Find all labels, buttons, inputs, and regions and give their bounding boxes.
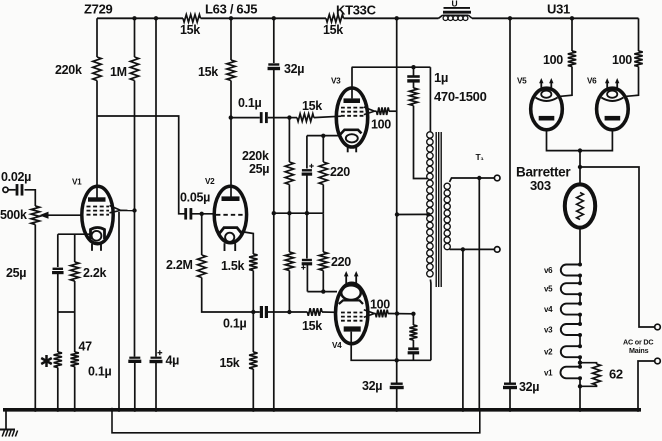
svg-text:V4: V4 <box>332 341 342 350</box>
wire coupling junction to 0.1u <box>231 117 260 119</box>
svg-text:1M: 1M <box>110 65 127 79</box>
wire return bus below rail <box>112 410 480 433</box>
label 100 <box>371 118 391 132</box>
svg-text:v3: v3 <box>544 326 553 335</box>
diode V5 (U31 rectifier half) <box>531 78 563 130</box>
wire heater chain <box>579 315 581 324</box>
wire asterisk resistor to rail <box>57 368 59 410</box>
node secondary bottom dot <box>461 247 465 251</box>
node ground rail junction <box>56 408 60 412</box>
capacitor 25u (V1 cathode bypass) <box>52 269 64 273</box>
label v4 <box>544 305 553 314</box>
wire 62 parallel top <box>580 363 597 364</box>
node center tap dot <box>426 212 430 216</box>
label AC or DC <box>623 338 653 347</box>
wire V4 screen funnel <box>364 310 376 317</box>
label Barretter <box>516 165 571 180</box>
barretter 303 (current regulator) <box>565 184 595 227</box>
label v1 <box>544 369 553 378</box>
node bus dot 25u <box>305 211 309 215</box>
node ground rail junction <box>73 408 77 412</box>
label 100 <box>370 298 390 312</box>
resistor 220k (V1 anode load) <box>93 57 101 81</box>
label 2.2k <box>83 266 106 280</box>
label U31 (rectifier type) <box>547 2 570 17</box>
svg-text:0.05µ: 0.05µ <box>180 191 210 205</box>
resistor 15k (V2 cathode to ground) <box>249 352 257 369</box>
svg-text:0.02µ: 0.02µ <box>1 170 31 184</box>
node mains terminal 1 <box>655 324 661 330</box>
wire V4 cathode wire <box>307 291 337 293</box>
resistor 2.2k (V1 cathode bias) <box>71 262 79 281</box>
resistor 100 (V6 anode limiter) <box>634 51 642 67</box>
wire HT rail (middle section) <box>201 17 327 19</box>
wire 220 top <box>322 136 324 162</box>
wire lower 220k to grid wire <box>288 271 290 313</box>
wire 0.1u cap to ground rail <box>134 362 136 410</box>
resistor 15k (HT dropper on rail, output stage) <box>326 15 344 23</box>
label V6 <box>587 77 597 86</box>
wire grid junction to 15k <box>289 117 297 119</box>
wire 4u cap to ground rail <box>155 362 157 410</box>
label 0.05u <box>180 191 210 205</box>
node V4 snubber junction <box>411 312 415 316</box>
wire V4 anode lead down <box>351 332 431 361</box>
wire junction down right <box>74 312 76 352</box>
wire V6 cathode down <box>580 130 612 151</box>
pentode V1 (Z729) <box>82 186 113 251</box>
node V3 cathode dot <box>321 134 325 138</box>
label 62 <box>609 367 623 382</box>
wire 1M screen feed from rail <box>134 18 136 57</box>
wire heater chain <box>579 294 581 303</box>
label KT33C (output valve type) <box>336 3 377 18</box>
label Z729 (V1 valve type) <box>84 2 113 17</box>
triode V2 (L63/6J5) <box>214 186 246 251</box>
label 100 <box>612 53 632 67</box>
capacitor 0.1u (paraphase coupling to V4) <box>261 306 266 318</box>
wire heater chain <box>579 276 581 284</box>
wire 2.2k to junction <box>74 281 76 312</box>
wire upper 220k from grid junction <box>288 118 290 162</box>
svg-text:0.1µ: 0.1µ <box>238 96 261 110</box>
svg-text:T₁: T₁ <box>476 152 485 162</box>
label 500k <box>0 208 27 222</box>
node HT rail junction <box>272 16 276 20</box>
node screen junction dot <box>132 208 136 212</box>
svg-text:V2: V2 <box>205 177 215 186</box>
wire 220k to V1 anode <box>96 81 98 198</box>
node ground bus tee <box>272 211 276 215</box>
wire 220k anode feed from rail <box>96 18 98 57</box>
wire V3 cathode wire <box>307 135 340 137</box>
label v6 <box>544 266 553 275</box>
node HT rail junction <box>229 16 233 20</box>
wire screen feed line from rail <box>396 18 398 382</box>
wire 100 to V5 lead <box>561 67 573 97</box>
wire HT to 32u cap <box>273 18 275 63</box>
wire V5 cathode down <box>547 130 581 151</box>
wire heater chain to ground rail <box>579 378 581 410</box>
svg-text:V1: V1 <box>72 178 82 187</box>
resistor 220k (V4 grid leak) <box>285 252 293 271</box>
svg-text:4µ: 4µ <box>166 354 180 368</box>
potentiometer 500k volume control <box>31 206 39 225</box>
node ground rail junction <box>251 408 255 412</box>
wire cathode junction jog <box>58 311 75 313</box>
resistor 100 (V4 screen stopper) <box>376 310 389 318</box>
wire primary top lead <box>429 67 431 131</box>
node ground rail junction <box>117 408 121 412</box>
node V3 grid junction <box>287 115 291 119</box>
capacitor 0.1u (V1 screen bypass) <box>128 358 141 362</box>
node secondary top dot <box>477 176 481 180</box>
svg-text:220k: 220k <box>55 63 82 77</box>
resistor 47 (V1 cathode) <box>71 352 79 367</box>
wire V4 heater stubs with arrows <box>344 271 359 284</box>
wire 0.1u to V4 grid junction <box>268 311 308 313</box>
wire lower 220 top <box>322 213 324 252</box>
svg-text:KT33C: KT33C <box>336 3 377 18</box>
wire V3 anode top bus <box>352 66 431 68</box>
wire 47 to rail <box>74 367 76 410</box>
pentode V3 (KT33C upper output) <box>336 88 367 152</box>
wire 32u down to ground bus <box>273 69 275 213</box>
svg-text:500k: 500k <box>0 208 27 222</box>
label 1u <box>434 70 448 85</box>
node screen feed CT junction <box>395 212 399 216</box>
wire 62 parallel bottom <box>580 385 597 386</box>
wire mains 2 to ground rail <box>638 361 655 410</box>
wire 1u to 470-1500 <box>413 81 415 88</box>
capacitor 25u (V4 cathode bypass) <box>302 260 313 264</box>
label 220k <box>242 149 269 163</box>
wire 100 to screen feed line <box>389 110 397 112</box>
node 62 bottom junction <box>578 384 582 388</box>
wire lower 25u to cathode wire <box>306 264 308 292</box>
label 4u <box>166 354 180 368</box>
svg-text:U: U <box>452 0 458 9</box>
wire secondary bottom to ground rail <box>462 249 464 409</box>
svg-text:v2: v2 <box>544 348 553 357</box>
wire V1 anode node bus <box>97 116 186 214</box>
wire 32u to ground rail <box>509 388 511 410</box>
svg-text:v4: v4 <box>544 305 553 314</box>
svg-text:U31: U31 <box>547 2 570 17</box>
wire 0.1u to grid junction <box>268 117 290 119</box>
svg-text:470-1500: 470-1500 <box>434 89 487 104</box>
label L63 / 6J5 (V2 valve type) <box>205 2 257 17</box>
resistor 2.2M (paraphase divider) <box>198 255 206 278</box>
label 1M <box>110 65 127 79</box>
svg-text:15k: 15k <box>323 23 343 37</box>
node rectifier output junction <box>578 148 582 152</box>
svg-text:0.1µ: 0.1µ <box>223 317 246 331</box>
wire 220k to ground bus <box>288 185 290 214</box>
wire lower 220k from ground bus <box>288 213 290 252</box>
wire input to coupling cap <box>8 189 15 191</box>
node barretter top junction <box>578 165 582 169</box>
node ground rail junction <box>33 408 37 412</box>
node V4 cathode dot <box>321 289 325 293</box>
node V2 anode coupling junction <box>229 115 233 119</box>
wire heater chain <box>579 357 581 367</box>
svg-text:15k: 15k <box>302 319 322 333</box>
svg-text:100: 100 <box>612 53 632 67</box>
label v2 <box>544 348 553 357</box>
capacitor 0.05u (V1 to V2 coupling) <box>186 208 191 220</box>
wire junction down left <box>57 312 59 352</box>
label 0.1u <box>223 317 246 331</box>
svg-text:25µ: 25µ <box>249 162 269 176</box>
wire screen junction down to 0.1u cap <box>134 211 136 357</box>
label 1.5k <box>221 259 244 273</box>
wire bus to 1u cap <box>413 67 415 76</box>
wire 100 to snubber junction <box>388 313 413 315</box>
node ground rail junction <box>636 408 640 412</box>
resistor 100 (V3 screen stopper) <box>377 107 390 115</box>
inductor heater v2 <box>561 344 582 359</box>
label 0.02u <box>1 170 31 184</box>
node ground rail junction <box>154 408 158 412</box>
node output terminal upper <box>494 175 500 181</box>
wire lower 25u top <box>306 213 308 258</box>
resistor 15k (HT dropper on rail, V1 stage) <box>183 15 201 23</box>
wire junction to snubber resistor <box>412 314 414 325</box>
capacitor 0.1u (V2 to V3 coupling) <box>261 112 266 123</box>
resistor selected-on-test (asterisk) <box>54 352 62 368</box>
capacitor 32u (reservoir) <box>503 384 517 388</box>
wire ground rail (chassis bus) <box>3 408 641 412</box>
capacitor 25u (V3 cathode bypass) <box>302 170 313 174</box>
node mains terminal 2 <box>655 358 661 364</box>
capacitor 4u (HT decoupling) <box>150 358 163 362</box>
label U <box>452 0 458 9</box>
wire heater chain <box>579 335 581 346</box>
wire 15k to V4 grid <box>322 311 337 313</box>
wire V1 screen lead to 1M junction <box>110 206 135 213</box>
svg-text:15k: 15k <box>302 99 322 113</box>
resistor 62 (heater shunt) <box>593 364 601 385</box>
svg-text:100: 100 <box>371 118 391 132</box>
capacitor 32u (HT smoothing) <box>268 65 281 69</box>
node rail dot rectifier <box>508 16 512 20</box>
node input terminal <box>3 187 8 192</box>
wire 15k to V3 grid <box>314 116 341 117</box>
node rail dot <box>395 16 399 20</box>
wire V5 100 from rail <box>571 18 573 51</box>
label 220 <box>330 165 350 179</box>
inductor heater v1 <box>560 365 582 381</box>
label 100 <box>543 53 563 67</box>
wire V2 grid junction to 2.2M <box>201 214 203 255</box>
ground (chassis earth) <box>0 412 18 437</box>
diode V6 (U31 rectifier half) <box>597 78 629 130</box>
wire secondary top down <box>478 178 480 410</box>
wire 15k to ground rail <box>252 369 254 410</box>
svg-text:v5: v5 <box>544 285 553 294</box>
svg-text:V5: V5 <box>517 77 527 86</box>
inductor T1 primary winding <box>427 132 433 277</box>
wire barretter to heater chain <box>579 228 581 265</box>
label 25u <box>6 266 26 280</box>
wire snubber resistor to cap <box>412 340 414 349</box>
svg-text:47: 47 <box>79 340 93 354</box>
label V1 <box>72 178 82 187</box>
wire 1M down to screen junction <box>134 81 136 211</box>
svg-text:1µ: 1µ <box>434 70 448 85</box>
wire secondary top lead <box>450 178 495 182</box>
wire primary bottom lead <box>429 280 432 361</box>
label V4 <box>332 341 342 350</box>
svg-text:15k: 15k <box>220 356 240 370</box>
svg-text:62: 62 <box>609 367 623 382</box>
wire ground bus drop to rail <box>273 213 275 410</box>
svg-text:15k: 15k <box>198 65 218 79</box>
label 0.1u <box>238 96 261 110</box>
node output terminal lower <box>494 247 500 253</box>
node ground rail junction <box>395 408 399 412</box>
label 25u <box>249 162 269 176</box>
node snubber tap dot <box>411 65 415 69</box>
svg-text:V6: V6 <box>587 77 597 86</box>
svg-text:100: 100 <box>543 53 563 67</box>
label V5 <box>517 77 527 86</box>
wire 1.5k to node <box>252 271 254 313</box>
wire 2.2M down to V4 grid wire <box>202 278 260 313</box>
node bus dot 220k <box>287 211 291 215</box>
svg-text:25µ: 25µ <box>6 266 26 280</box>
wire junction to mains live <box>580 167 655 327</box>
label V2 <box>205 177 215 186</box>
wire snubber lower to anode wire <box>412 353 414 361</box>
resistor 220k (V3 grid leak) <box>285 162 293 185</box>
label 15k <box>302 99 322 113</box>
wire 15k to V2 anode <box>230 81 232 197</box>
node screen line junction <box>395 311 399 315</box>
inductor heater v6 <box>561 263 582 278</box>
svg-text:2.2k: 2.2k <box>83 266 106 280</box>
node ground rail junction <box>133 408 137 412</box>
resistor 1.5k (V2 cathode bias) <box>249 254 257 271</box>
label 32u <box>519 380 539 394</box>
node HT rail junction <box>154 16 158 20</box>
wire 100 to V6 lead <box>627 67 639 97</box>
resistor 15k (V3 grid stopper) <box>297 114 314 122</box>
label 15k <box>302 319 322 333</box>
wire V1 grid to pot wiper with arrow <box>39 212 82 219</box>
label 220k <box>55 63 82 77</box>
svg-text:V3: V3 <box>331 77 341 86</box>
label 470-1500 <box>434 89 487 104</box>
wire 0.05u to V2 grid <box>192 213 216 215</box>
wire V1 cathode to bias network <box>58 233 91 235</box>
svg-text:220k: 220k <box>242 149 269 163</box>
wire junction to barretter <box>579 151 581 185</box>
label 2.2M <box>166 258 193 272</box>
svg-text:32µ: 32µ <box>362 379 382 393</box>
node ground rail junction <box>508 408 512 412</box>
label 32u <box>284 62 304 76</box>
transformer T1 core <box>436 132 441 287</box>
svg-text:Z729: Z729 <box>84 2 113 17</box>
wire lower 220 to cathode wire <box>322 271 324 292</box>
resistor 220 (V4 cathode bias) <box>319 252 327 271</box>
node anode wire crossing <box>395 358 399 362</box>
svg-text:220: 220 <box>330 165 350 179</box>
node ground rail junction <box>461 408 465 412</box>
inductor heater v4 <box>561 302 582 317</box>
label 47 <box>79 340 93 354</box>
node 62 top junction <box>578 361 582 365</box>
wire 2.2k top <box>74 234 76 262</box>
wire V2 cathode jog <box>241 232 254 255</box>
wire V1 screen bypass drop <box>118 212 120 410</box>
pentode V4 (KT33C lower output) <box>336 283 368 343</box>
inductor heater v3 <box>561 322 582 337</box>
node V2 cathode divider junction <box>251 310 255 314</box>
wire pot bottom to ground rail <box>34 225 36 410</box>
svg-text:Mains: Mains <box>629 346 649 355</box>
wire HT line from rectifier <box>509 18 511 382</box>
svg-text:2.2M: 2.2M <box>166 258 193 272</box>
label v3 <box>544 326 553 335</box>
wire snubber to primary tap <box>414 106 428 179</box>
wire 25u to junction <box>57 273 59 312</box>
label + <box>157 350 162 355</box>
wire secondary bottom lead <box>450 248 495 250</box>
label + <box>309 164 313 168</box>
svg-text:32µ: 32µ <box>284 62 304 76</box>
label + <box>301 265 305 269</box>
label 15k <box>220 356 240 370</box>
label 303 <box>530 178 551 193</box>
wire V3 anode lead up <box>351 67 353 98</box>
label 15k <box>323 23 343 37</box>
wire HT rail (right section) <box>472 17 639 19</box>
label Mains <box>629 346 649 355</box>
resistor 15k (V4 grid stopper) <box>307 308 322 316</box>
wire cap to volume pot <box>25 190 36 206</box>
svg-text:15k: 15k <box>180 23 200 37</box>
svg-text:v6: v6 <box>544 266 553 275</box>
wire 32u to ground rail <box>396 388 398 410</box>
node ground rail junction <box>578 408 582 412</box>
label * (selected) <box>41 355 52 367</box>
wire HT rail (to choke) <box>344 17 439 19</box>
node V2 grid junction <box>200 212 204 216</box>
wire V6 100 from rail corner <box>638 18 640 51</box>
resistor 220 (V3 cathode bias) <box>319 162 327 185</box>
svg-text:1.5k: 1.5k <box>221 259 244 273</box>
resistor 15k (V2 anode load) <box>227 60 235 81</box>
node junction with 220k <box>287 310 291 314</box>
svg-text:0.1µ: 0.1µ <box>88 365 111 379</box>
label v5 <box>544 285 553 294</box>
wire ground bus <box>274 212 323 214</box>
wire center tap to screen feed line <box>397 213 428 215</box>
wire divider node to 15k <box>252 312 254 352</box>
capacitor snubber lower <box>408 349 420 353</box>
label 15k <box>180 23 200 37</box>
svg-text:303: 303 <box>530 178 551 193</box>
inductor T1 secondary winding <box>444 183 450 250</box>
capacitor 32u (screen line smoothing) <box>390 384 404 388</box>
wire cathode down to 25u <box>57 234 59 267</box>
wire 220 to ground bus <box>322 185 324 214</box>
capacitor 1u (primary snubber upper) <box>407 77 420 81</box>
choke U (smoothing choke on HT rail) <box>439 8 473 21</box>
